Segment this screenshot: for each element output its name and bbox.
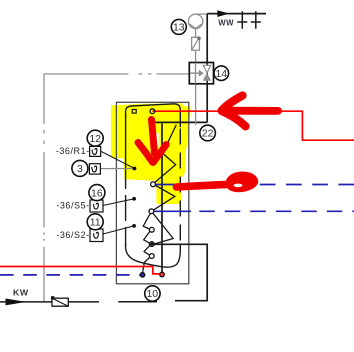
svg-text:-36/S2-: -36/S2- <box>56 230 89 240</box>
svg-text:-36/S5-: -36/S5- <box>56 200 89 210</box>
svg-text:22: 22 <box>202 128 214 140</box>
svg-text:3: 3 <box>77 163 83 175</box>
svg-text:14: 14 <box>215 68 227 80</box>
svg-text:WW: WW <box>218 18 234 27</box>
svg-text:-36/R1-: -36/R1- <box>56 146 90 156</box>
svg-text:16: 16 <box>91 187 103 199</box>
svg-text:13: 13 <box>173 22 185 34</box>
svg-text:12: 12 <box>89 133 101 145</box>
svg-text:KW: KW <box>13 287 29 297</box>
svg-text:10: 10 <box>146 288 158 300</box>
svg-text:11: 11 <box>90 217 101 229</box>
